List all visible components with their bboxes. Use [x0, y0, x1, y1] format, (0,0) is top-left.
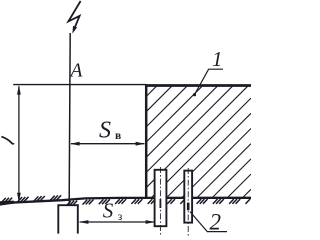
dimension Sv right arrowhead [136, 142, 145, 146]
svg-text:S: S [99, 118, 111, 144]
rod underground lead [68, 198, 70, 205]
callout 1: leader line [195, 69, 224, 95]
electrode 2 thick dash below ground [187, 203, 190, 211]
svg-text:A: A [69, 61, 83, 82]
foundation electrode 2a (left, wide) white body [155, 167, 167, 235]
roof / protection level line [13, 84, 146, 86]
electrode 2 centerline (dash-dot) [187, 168, 189, 236]
label l (italic, strongly slanted) [1, 137, 13, 144]
lightning stroke arrow (downward leader) [68, 1, 80, 30]
svg-text:S: S [103, 199, 114, 223]
dimension l bottom arrowhead [17, 193, 21, 202]
building 1: left wall edge [145, 84, 148, 197]
svg-text:з: з [118, 211, 123, 223]
rod earthing trench: left side [57, 205, 59, 233]
svg-text:в: в [115, 130, 121, 142]
svg-text:2: 2 [210, 210, 222, 235]
foundation electrode 2 (right, narrow) white body [184, 168, 192, 236]
thick dark ground wedge at far left [0, 201, 14, 206]
ground surface line [0, 198, 251, 203]
dimension Sz left arrowhead [79, 220, 88, 224]
callout 2: leader line [190, 212, 227, 232]
svg-text:1: 1 [212, 47, 223, 71]
dimension l vertical line [18, 86, 20, 201]
rod earthing trench: right side [77, 205, 79, 233]
dimension l top arrowhead [17, 85, 21, 94]
building 1: top edge [145, 84, 251, 87]
dimension Sz right arrowhead [146, 220, 155, 224]
lightning arrowhead [72, 26, 77, 34]
rod earthing trench: top [57, 204, 78, 206]
electrode 2a thick dash below ground [159, 199, 161, 208]
ground hatching strokes [1, 195, 250, 206]
callout 1: reference dot [193, 93, 196, 96]
dimension Sv line [71, 143, 144, 145]
dimension Sz line [80, 221, 155, 223]
electrode 2a centerline (dash-dot) [159, 167, 161, 235]
building hatch (45 deg) [146, 86, 251, 197]
dimension Sv left arrowhead [70, 142, 79, 146]
lightning rod (air terminal) mast [69, 33, 70, 198]
